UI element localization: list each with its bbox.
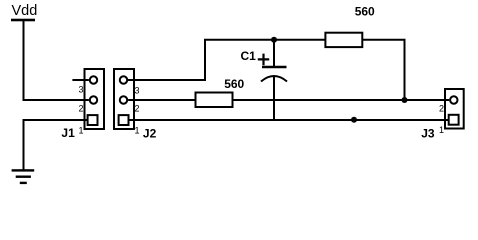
svg-text:J2: J2 <box>143 127 157 141</box>
junction node at C1 top <box>271 37 277 43</box>
wire J2 pin 1 to J3 pin 1 <box>129 119 449 121</box>
svg-text:1: 1 <box>439 125 444 135</box>
svg-text:560: 560 <box>355 5 375 19</box>
svg-text:Vdd: Vdd <box>12 3 38 19</box>
resistor R2 value 560 <box>325 5 375 47</box>
svg-text:J1: J1 <box>61 126 75 140</box>
svg-text:560: 560 <box>224 77 244 91</box>
svg-text:3: 3 <box>135 86 140 96</box>
connector J2 <box>114 69 157 141</box>
wire C1 bottom lead <box>273 77 275 121</box>
resistor R1 value 560 <box>196 77 245 107</box>
svg-text:3: 3 <box>78 85 83 95</box>
wire J1 pin 1 to ground <box>24 120 89 170</box>
wire J2 pin 3 up and right to resistor <box>128 40 326 80</box>
wire Vdd rail to J1 pin 2 <box>24 21 89 101</box>
wire J2 pin 2 to resistor 560 <box>128 99 195 101</box>
junction node right branch <box>402 97 408 103</box>
ground <box>12 169 35 184</box>
svg-text:1: 1 <box>78 126 83 136</box>
connector J1 <box>61 69 104 140</box>
svg-text:C1: C1 <box>241 49 257 63</box>
connector J3 <box>421 89 464 141</box>
wire resistor 560 to J3 pin 2 <box>233 99 450 101</box>
junction node bottom wire <box>351 117 357 123</box>
power flag Vdd <box>11 3 37 22</box>
svg-text:2: 2 <box>439 104 444 114</box>
capacitor C1 <box>241 49 288 81</box>
svg-text:2: 2 <box>78 104 83 114</box>
svg-text:J3: J3 <box>421 127 435 141</box>
svg-text:1: 1 <box>135 126 140 136</box>
svg-text:2: 2 <box>135 104 140 114</box>
wire C1 top lead <box>273 40 275 66</box>
wire J1 pin 3 stub <box>72 79 89 81</box>
wire resistor to corner down to node <box>362 40 404 100</box>
